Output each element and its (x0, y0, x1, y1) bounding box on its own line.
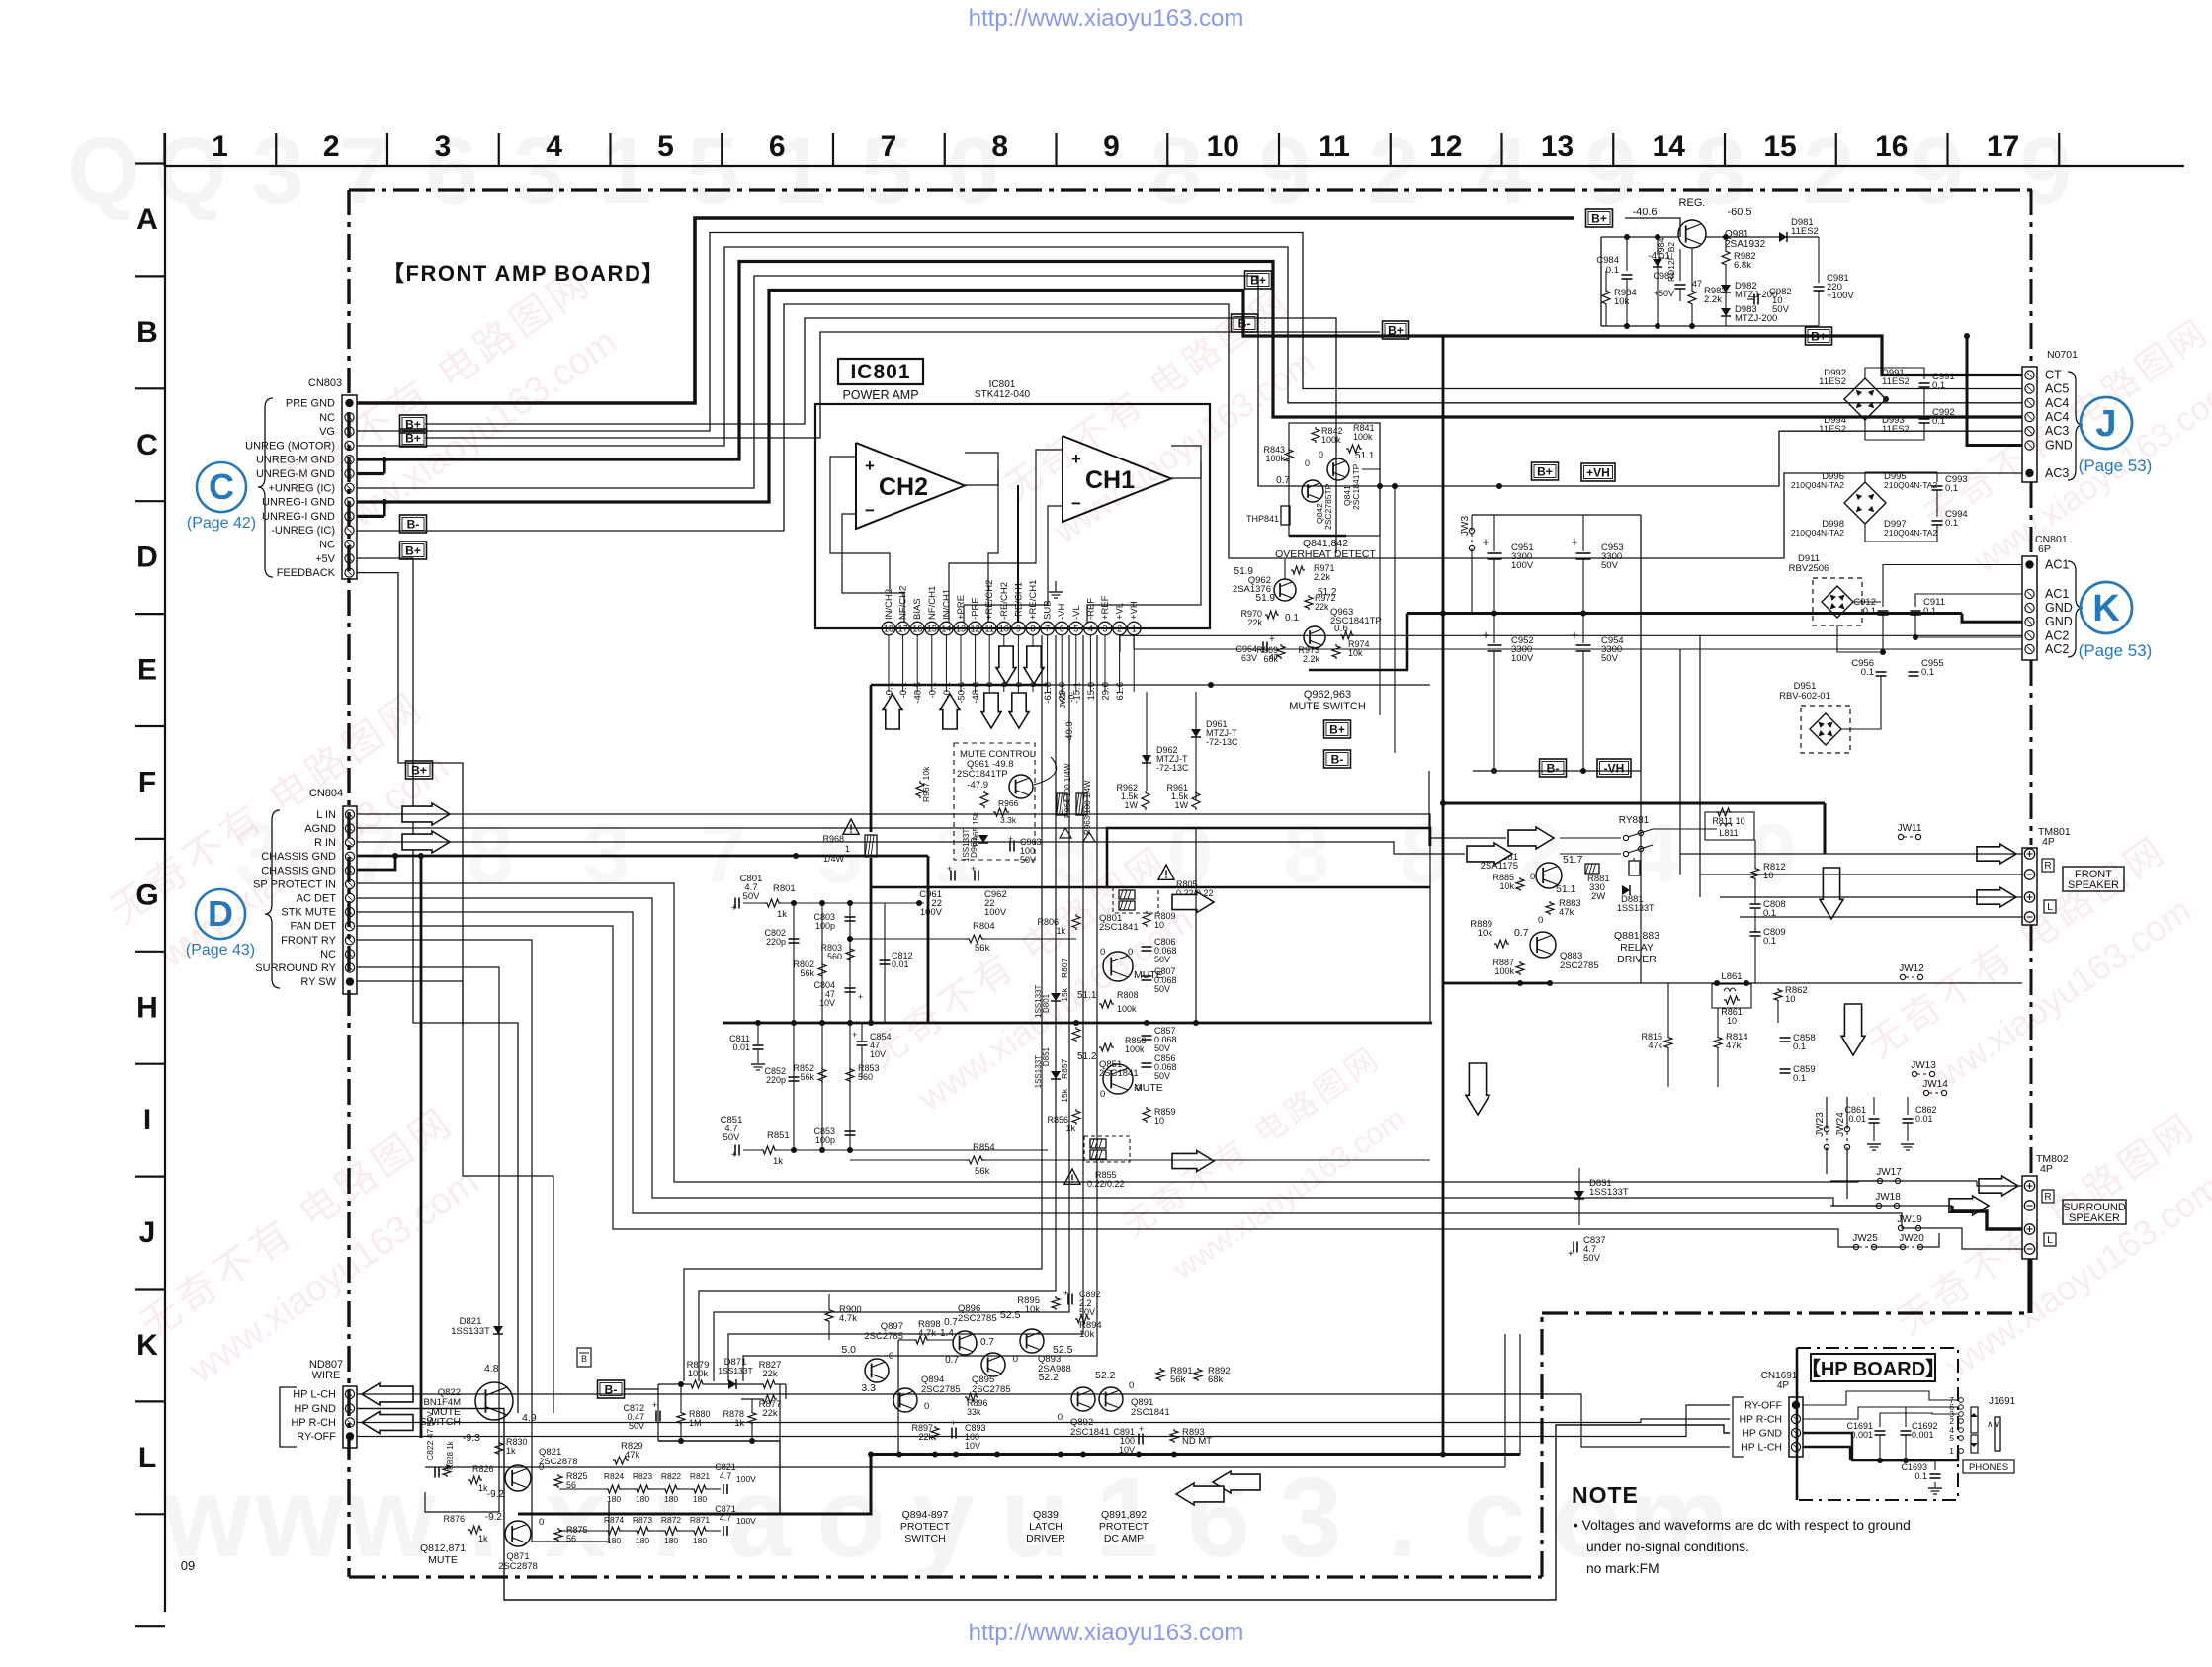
svg-text:180: 180 (636, 1536, 649, 1545)
svg-text:2SC2785: 2SC2785 (958, 1313, 997, 1324)
svg-text:1W: 1W (1125, 800, 1139, 810)
svg-text:B+: B+ (405, 431, 421, 445)
svg-text:AC2: AC2 (2045, 642, 2069, 656)
svg-text:22k: 22k (1247, 618, 1262, 627)
svg-text:33k: 33k (967, 1407, 981, 1417)
svg-text:100V: 100V (1511, 560, 1534, 571)
svg-text:1W: 1W (1175, 800, 1189, 810)
svg-text:R826: R826 (472, 1464, 494, 1474)
svg-text:2: 2 (1368, 119, 1420, 223)
svg-text:R808: R808 (1117, 990, 1139, 1000)
svg-text:1SS133T: 1SS133T (962, 829, 971, 862)
svg-text:D801: D801 (1042, 993, 1051, 1013)
svg-text:NOTE: NOTE (1572, 1482, 1639, 1508)
svg-text:AC5: AC5 (2045, 382, 2069, 396)
svg-text:180: 180 (664, 1494, 678, 1504)
svg-text:+: + (731, 903, 737, 914)
svg-text:-72-13C: -72-13C (1156, 763, 1189, 773)
svg-text:HP L-CH: HP L-CH (293, 1389, 336, 1401)
svg-text:-40.6: -40.6 (1632, 207, 1657, 218)
svg-text:JW3: JW3 (1460, 516, 1471, 536)
svg-text:+: + (852, 1030, 857, 1040)
svg-text:R851: R851 (767, 1130, 790, 1141)
svg-text:3: 3 (252, 119, 304, 223)
svg-text:10k: 10k (1348, 648, 1363, 658)
svg-text:-60.5: -60.5 (1727, 207, 1751, 218)
svg-text:-9.3: -9.3 (463, 1432, 480, 1444)
svg-text:0.1: 0.1 (1932, 380, 1945, 391)
svg-text:w: w (162, 1455, 252, 1581)
svg-text:0: 0 (1530, 872, 1535, 882)
svg-text:56k: 56k (1170, 1375, 1186, 1385)
svg-text:2: 2 (323, 130, 340, 163)
svg-text:VG: VG (319, 426, 335, 438)
svg-text:100k: 100k (688, 1369, 709, 1379)
svg-text:7: 7 (339, 119, 391, 223)
svg-text:+: + (1571, 627, 1578, 642)
svg-text:CN803: CN803 (308, 377, 342, 389)
svg-text:-9.2: -9.2 (487, 1489, 505, 1500)
svg-text:15: 15 (927, 625, 937, 634)
svg-text:47k: 47k (1648, 1041, 1662, 1050)
svg-text:B+: B+ (1250, 273, 1266, 287)
svg-text:R854: R854 (973, 1142, 995, 1153)
svg-text:R857: R857 (1060, 1058, 1069, 1079)
svg-text:100k: 100k (1494, 966, 1514, 976)
svg-text:JW19: JW19 (1897, 1214, 1922, 1225)
svg-text:∧∨: ∧∨ (1987, 1419, 1999, 1429)
svg-text:47k: 47k (625, 1450, 640, 1460)
svg-text:100p: 100p (815, 921, 835, 931)
svg-text:SURROUND RY: SURROUND RY (255, 962, 336, 974)
svg-text:C: C (136, 429, 158, 461)
svg-text:7: 7 (1045, 625, 1050, 634)
svg-text:210Q04N-TA2: 210Q04N-TA2 (1884, 528, 1937, 538)
svg-text:+: + (731, 1150, 737, 1161)
svg-text:0.7: 0.7 (980, 1337, 994, 1348)
svg-text:50V: 50V (1154, 1043, 1170, 1053)
svg-text:+: + (971, 864, 976, 874)
svg-text:JW17: JW17 (1876, 1167, 1902, 1178)
svg-text:14: 14 (941, 625, 951, 634)
svg-text:100k: 100k (1117, 1004, 1137, 1014)
svg-text:100V: 100V (736, 1474, 756, 1484)
svg-text:0: 0 (1058, 1412, 1063, 1423)
svg-text:D851: D851 (1042, 1046, 1051, 1066)
svg-text:100p: 100p (815, 1135, 835, 1145)
svg-text:1k: 1k (506, 1446, 516, 1456)
svg-text:18: 18 (884, 625, 893, 634)
svg-text:2SC1841: 2SC1841 (1099, 1068, 1139, 1079)
svg-text:JW12: JW12 (1899, 963, 1924, 974)
svg-text:0.001: 0.001 (1850, 1430, 1873, 1440)
svg-text:R828 1k: R828 1k (446, 1440, 455, 1470)
svg-text:+50V: +50V (1654, 289, 1674, 298)
svg-text:JW18: JW18 (1875, 1192, 1901, 1203)
svg-text:2: 2 (1117, 625, 1122, 634)
svg-text:D: D (208, 893, 233, 934)
svg-text:51.7: 51.7 (1563, 854, 1583, 866)
svg-text:RY SW: RY SW (300, 976, 336, 988)
svg-text:1: 1 (1949, 1446, 1954, 1456)
svg-text:AC3: AC3 (2045, 466, 2069, 480)
svg-text:B: B (581, 1354, 587, 1364)
svg-text:JW24: JW24 (1835, 1112, 1846, 1137)
svg-text:WIRE: WIRE (312, 1370, 341, 1381)
svg-text:52.5: 52.5 (1000, 1309, 1021, 1321)
svg-text:GND: GND (2045, 601, 2073, 615)
svg-text:0: 0 (1319, 450, 1323, 459)
svg-text:-VH: -VH (1057, 604, 1067, 621)
svg-text:R807: R807 (1060, 958, 1069, 978)
svg-text:51.1: 51.1 (1355, 451, 1375, 461)
svg-text:1: 1 (845, 844, 850, 854)
svg-text:R822: R822 (661, 1471, 682, 1481)
svg-text:UNREG-M GND: UNREG-M GND (256, 455, 335, 466)
svg-text:2SC2785: 2SC2785 (864, 1331, 903, 1342)
svg-text:DRIVER: DRIVER (1617, 954, 1657, 965)
svg-text:CH2: CH2 (879, 473, 928, 501)
svg-text:4.8: 4.8 (484, 1363, 499, 1375)
svg-text:3.3: 3.3 (861, 1382, 876, 1394)
svg-text:IN/CH2: IN/CH2 (884, 589, 894, 620)
svg-text:2SC2785: 2SC2785 (972, 1384, 1011, 1395)
svg-text:0: 0 (1100, 1089, 1105, 1100)
svg-text:51.9: 51.9 (1256, 593, 1276, 604)
svg-text:47k: 47k (1726, 1041, 1742, 1051)
svg-text:16: 16 (1875, 130, 1908, 163)
svg-text:0.1: 0.1 (1606, 265, 1619, 276)
svg-text:R874: R874 (604, 1515, 625, 1525)
svg-text:63V: 63V (1241, 653, 1257, 663)
svg-text:1k: 1k (777, 909, 787, 920)
svg-text:+RE/CH2: +RE/CH2 (984, 580, 995, 620)
svg-text:0.1: 0.1 (1793, 1073, 1806, 1084)
svg-text:1SS133T: 1SS133T (1589, 1187, 1629, 1198)
svg-text:100V: 100V (736, 1516, 756, 1526)
svg-text:100V: 100V (984, 907, 1007, 918)
svg-text:2SC2785TP: 2SC2785TP (1323, 483, 1333, 530)
svg-text:−: − (1071, 494, 1081, 513)
svg-text:GND: GND (2045, 439, 2073, 453)
svg-text:0.7: 0.7 (945, 1355, 959, 1366)
svg-text:SPEAKER: SPEAKER (2069, 1212, 2120, 1224)
svg-text:50V: 50V (1601, 560, 1619, 571)
svg-text:THP841: THP841 (1246, 514, 1279, 524)
svg-text:4P: 4P (2040, 1163, 2053, 1175)
svg-text:2SA1932: 2SA1932 (1725, 239, 1766, 250)
svg-text:JW20: JW20 (1899, 1233, 1924, 1244)
svg-text:6: 6 (769, 130, 786, 163)
svg-text:CN804: CN804 (309, 788, 343, 799)
svg-text:R821: R821 (690, 1471, 711, 1481)
svg-text:12: 12 (1429, 130, 1462, 163)
svg-text:560: 560 (858, 1072, 873, 1082)
svg-text:+REF: +REF (1100, 595, 1111, 620)
svg-text:47: 47 (1692, 279, 1702, 289)
svg-text:AC1: AC1 (2045, 587, 2069, 601)
svg-text:14: 14 (1653, 130, 1686, 163)
svg-text:100k: 100k (1125, 1044, 1145, 1054)
svg-text:50V: 50V (1154, 984, 1170, 994)
svg-text:1SS133T: 1SS133T (718, 1366, 752, 1375)
svg-text:Q881,883: Q881,883 (1614, 930, 1659, 942)
svg-text:REG.: REG. (1679, 197, 1706, 208)
svg-text:NC: NC (320, 949, 336, 960)
svg-text:NF/CH1: NF/CH1 (927, 586, 938, 620)
svg-text:10: 10 (999, 625, 1009, 634)
svg-text:8: 8 (1030, 625, 1035, 634)
svg-text:w: w (346, 1455, 436, 1581)
svg-text:AGND: AGND (304, 823, 336, 835)
svg-text:UNREG-I GND: UNREG-I GND (262, 511, 335, 523)
svg-text:15k: 15k (1060, 1088, 1069, 1102)
svg-text:MTZJ-200: MTZJ-200 (1735, 313, 1777, 324)
svg-text:56k: 56k (800, 968, 814, 978)
svg-text:RBV-602-01: RBV-602-01 (1779, 691, 1830, 702)
svg-text:2SC2878: 2SC2878 (539, 1457, 578, 1467)
svg-text:B+: B+ (1388, 323, 1404, 337)
svg-text:B+: B+ (411, 763, 427, 777)
svg-text:-72-13C: -72-13C (1206, 737, 1238, 747)
svg-text:56k: 56k (975, 943, 990, 954)
svg-text:1k: 1k (1056, 926, 1065, 936)
svg-text:o: o (816, 1455, 886, 1581)
svg-text:Q894-897: Q894-897 (902, 1509, 949, 1521)
svg-text:R801: R801 (773, 883, 796, 894)
svg-text:100V: 100V (920, 907, 943, 918)
svg-text:+: + (1269, 634, 1275, 645)
svg-text:2.2k: 2.2k (1314, 572, 1331, 582)
svg-text:-41.1: -41.1 (1648, 251, 1670, 262)
svg-text:2: 2 (1803, 119, 1855, 223)
svg-text:R IN: R IN (314, 837, 336, 849)
svg-text:Q962,963: Q962,963 (1304, 689, 1351, 701)
svg-text:L: L (138, 1442, 156, 1474)
svg-text:w: w (254, 1455, 344, 1581)
svg-text:B+: B+ (405, 543, 421, 557)
svg-text:under no-signal conditions.: under no-signal conditions. (1586, 1540, 1749, 1554)
svg-text:http://www.xiaoyu163.com: http://www.xiaoyu163.com (969, 5, 1244, 32)
svg-text:0.1: 0.1 (1923, 606, 1936, 617)
svg-text:10: 10 (1207, 130, 1239, 163)
svg-text:Q: Q (67, 119, 140, 223)
svg-text:R967 10k: R967 10k (921, 766, 931, 802)
svg-text:http://www.xiaoyu163.com: http://www.xiaoyu163.com (969, 1620, 1244, 1646)
svg-text:LATCH: LATCH (1029, 1521, 1063, 1533)
svg-text:5: 5 (1073, 625, 1078, 634)
svg-text:OVERHEAT DETECT: OVERHEAT DETECT (1275, 548, 1376, 560)
svg-text:0: 0 (1129, 1380, 1134, 1391)
svg-text:7: 7 (700, 807, 746, 901)
svg-text:MUTE SWITCH: MUTE SWITCH (1289, 701, 1366, 712)
svg-text:PHONES: PHONES (1969, 1462, 2008, 1473)
svg-text:NF/CH2: NF/CH2 (898, 586, 909, 620)
svg-text:10k: 10k (1499, 881, 1514, 891)
svg-text:2SC2785: 2SC2785 (921, 1384, 961, 1395)
svg-text:SWITCH: SWITCH (904, 1533, 945, 1544)
svg-text:3: 3 (1279, 1455, 1342, 1581)
svg-text:0.01: 0.01 (732, 1042, 750, 1052)
svg-text:47: 47 (1269, 652, 1279, 662)
svg-text:0.01: 0.01 (892, 959, 909, 969)
svg-text:FEEDBACK: FEEDBACK (277, 567, 336, 579)
svg-text:FRONT RY: FRONT RY (281, 935, 336, 947)
svg-text:+: + (858, 992, 863, 1002)
svg-text:22k: 22k (762, 1369, 778, 1379)
svg-text:+: + (1071, 450, 1081, 468)
svg-text:0.01: 0.01 (1848, 1114, 1866, 1124)
svg-text:E: E (137, 654, 157, 687)
svg-text:J: J (139, 1216, 156, 1249)
svg-text:A: A (136, 204, 158, 236)
svg-text:10k: 10k (1614, 296, 1630, 307)
svg-text:-REF: -REF (1085, 598, 1096, 620)
svg-text:50V: 50V (723, 1132, 741, 1143)
svg-text:9: 9 (1912, 119, 1964, 223)
svg-text:+VH: +VH (1129, 601, 1140, 620)
svg-text:RELAY: RELAY (1620, 942, 1654, 954)
svg-text:L: L (2047, 902, 2053, 913)
svg-text:IN/CH1: IN/CH1 (941, 589, 952, 620)
svg-text:5.0: 5.0 (841, 1344, 856, 1356)
svg-text:51.2: 51.2 (1077, 1051, 1097, 1062)
svg-text:+UNREG (IC): +UNREG (IC) (268, 482, 335, 494)
svg-text:+100V: +100V (1827, 291, 1854, 301)
svg-text:9: 9 (1585, 119, 1638, 223)
svg-text:B+: B+ (1329, 722, 1345, 736)
svg-text:B+: B+ (1537, 464, 1553, 478)
svg-text:15: 15 (1763, 130, 1796, 163)
svg-text:JW14: JW14 (1922, 1079, 1948, 1090)
svg-text:15k: 15k (1060, 987, 1069, 1001)
svg-text:+: + (1568, 1249, 1574, 1260)
svg-text:CT: CT (2045, 369, 2062, 382)
svg-text:56k: 56k (975, 1166, 990, 1177)
svg-text:JW23: JW23 (1815, 1112, 1826, 1137)
svg-text:R871: R871 (690, 1515, 711, 1525)
svg-text:Q812,871: Q812,871 (420, 1542, 466, 1554)
svg-text:47k: 47k (1559, 907, 1574, 918)
svg-text:220p: 220p (766, 937, 786, 947)
svg-text:C983: C983 (1653, 271, 1674, 281)
svg-text:560: 560 (827, 952, 842, 961)
svg-text:10V: 10V (870, 1049, 886, 1059)
svg-text:R964 100 1/4W: R964 100 1/4W (1063, 763, 1072, 818)
svg-text:2SC1841TP: 2SC1841TP (957, 769, 1008, 780)
svg-text:4.7: 4.7 (720, 1471, 732, 1481)
svg-text:11ES2: 11ES2 (1882, 376, 1910, 387)
svg-text:L811: L811 (1719, 828, 1738, 838)
svg-text:C: C (209, 466, 234, 507)
svg-text:0: 0 (1538, 915, 1543, 926)
svg-text:+: + (1139, 1424, 1144, 1434)
svg-text:JW13: JW13 (1911, 1060, 1936, 1071)
svg-text:-UNREG (IC): -UNREG (IC) (271, 525, 335, 537)
svg-text:2.2k: 2.2k (1704, 294, 1722, 305)
svg-text:10: 10 (1785, 994, 1796, 1005)
svg-text:+: + (1571, 535, 1578, 549)
svg-text:1k: 1k (773, 1156, 783, 1167)
svg-text:0.1: 0.1 (1945, 483, 1958, 494)
svg-text:4: 4 (546, 130, 562, 163)
svg-text:0: 0 (1128, 947, 1133, 958)
svg-text:8: 8 (1150, 119, 1203, 223)
svg-text:6P: 6P (2038, 543, 2051, 555)
svg-text:22k: 22k (762, 1408, 778, 1419)
svg-text:0.1: 0.1 (1914, 1471, 1927, 1481)
svg-text:1SS133T: 1SS133T (451, 1326, 490, 1337)
svg-text:HP R-CH: HP R-CH (291, 1417, 336, 1429)
svg-text:(Page 53): (Page 53) (2079, 457, 2153, 475)
svg-text:5: 5 (657, 130, 674, 163)
svg-text:210Q04N-TA2: 210Q04N-TA2 (1791, 528, 1844, 538)
svg-text:9: 9 (1259, 119, 1312, 223)
svg-text:0.1: 0.1 (1945, 518, 1958, 529)
svg-text:NC: NC (319, 540, 335, 551)
svg-text:22k: 22k (1315, 602, 1329, 612)
svg-text:10V: 10V (819, 998, 835, 1008)
svg-text:HP GND: HP GND (294, 1403, 336, 1415)
svg-text:6: 6 (426, 119, 478, 223)
svg-text:0: 0 (924, 1401, 929, 1412)
svg-text:100V: 100V (1511, 653, 1534, 664)
svg-text:0.22/0.22: 0.22/0.22 (1087, 1179, 1125, 1189)
svg-text:4P: 4P (1777, 1380, 1790, 1391)
svg-text:3: 3 (435, 130, 452, 163)
svg-text:B-: B- (1238, 316, 1251, 330)
svg-text:210Q04N-TA2: 210Q04N-TA2 (1884, 480, 1937, 490)
svg-text:52.2: 52.2 (1039, 1372, 1060, 1383)
svg-text:(Page 42): (Page 42) (187, 515, 256, 532)
svg-text:17: 17 (898, 625, 908, 634)
svg-text:AC1: AC1 (2045, 558, 2069, 572)
svg-text:0.1: 0.1 (1763, 936, 1776, 947)
svg-text:11: 11 (985, 625, 994, 634)
svg-text:FAN DET: FAN DET (291, 921, 337, 933)
svg-text:NC: NC (319, 412, 335, 424)
svg-text:I: I (143, 1104, 151, 1136)
svg-text:09: 09 (181, 1558, 195, 1573)
svg-text:11ES2: 11ES2 (1882, 424, 1910, 435)
svg-text:0: 0 (1305, 458, 1310, 468)
svg-text:0.1: 0.1 (1861, 667, 1874, 678)
svg-text:−: − (865, 501, 875, 520)
svg-text:R811 10: R811 10 (1712, 816, 1744, 826)
svg-text:+: + (652, 1400, 657, 1410)
svg-text:R873: R873 (633, 1515, 653, 1525)
svg-text:-9.2: -9.2 (485, 1512, 503, 1523)
svg-text:3.3k: 3.3k (1000, 815, 1017, 825)
svg-text:10: 10 (1154, 920, 1164, 930)
svg-text:0.1: 0.1 (1285, 613, 1299, 624)
svg-text:J1691: J1691 (1989, 1396, 2016, 1407)
svg-text:1SS133T: 1SS133T (1617, 903, 1655, 913)
svg-text:B-: B- (1331, 752, 1344, 766)
svg-text:RY881: RY881 (1619, 815, 1650, 826)
svg-text:100k: 100k (1353, 432, 1373, 442)
svg-text:0.01: 0.01 (1915, 1114, 1933, 1124)
svg-text:AC3: AC3 (2045, 424, 2069, 438)
svg-text:UNREG (MOTOR): UNREG (MOTOR) (245, 440, 335, 452)
svg-text:5: 5 (687, 119, 739, 223)
svg-text:+5V: +5V (315, 553, 336, 565)
svg-text:-VL: -VL (1071, 605, 1082, 620)
svg-text:3: 3 (1102, 625, 1107, 634)
svg-text:+: + (865, 457, 875, 475)
svg-text:11ES2: 11ES2 (1819, 376, 1846, 387)
svg-text:B: B (136, 316, 158, 349)
